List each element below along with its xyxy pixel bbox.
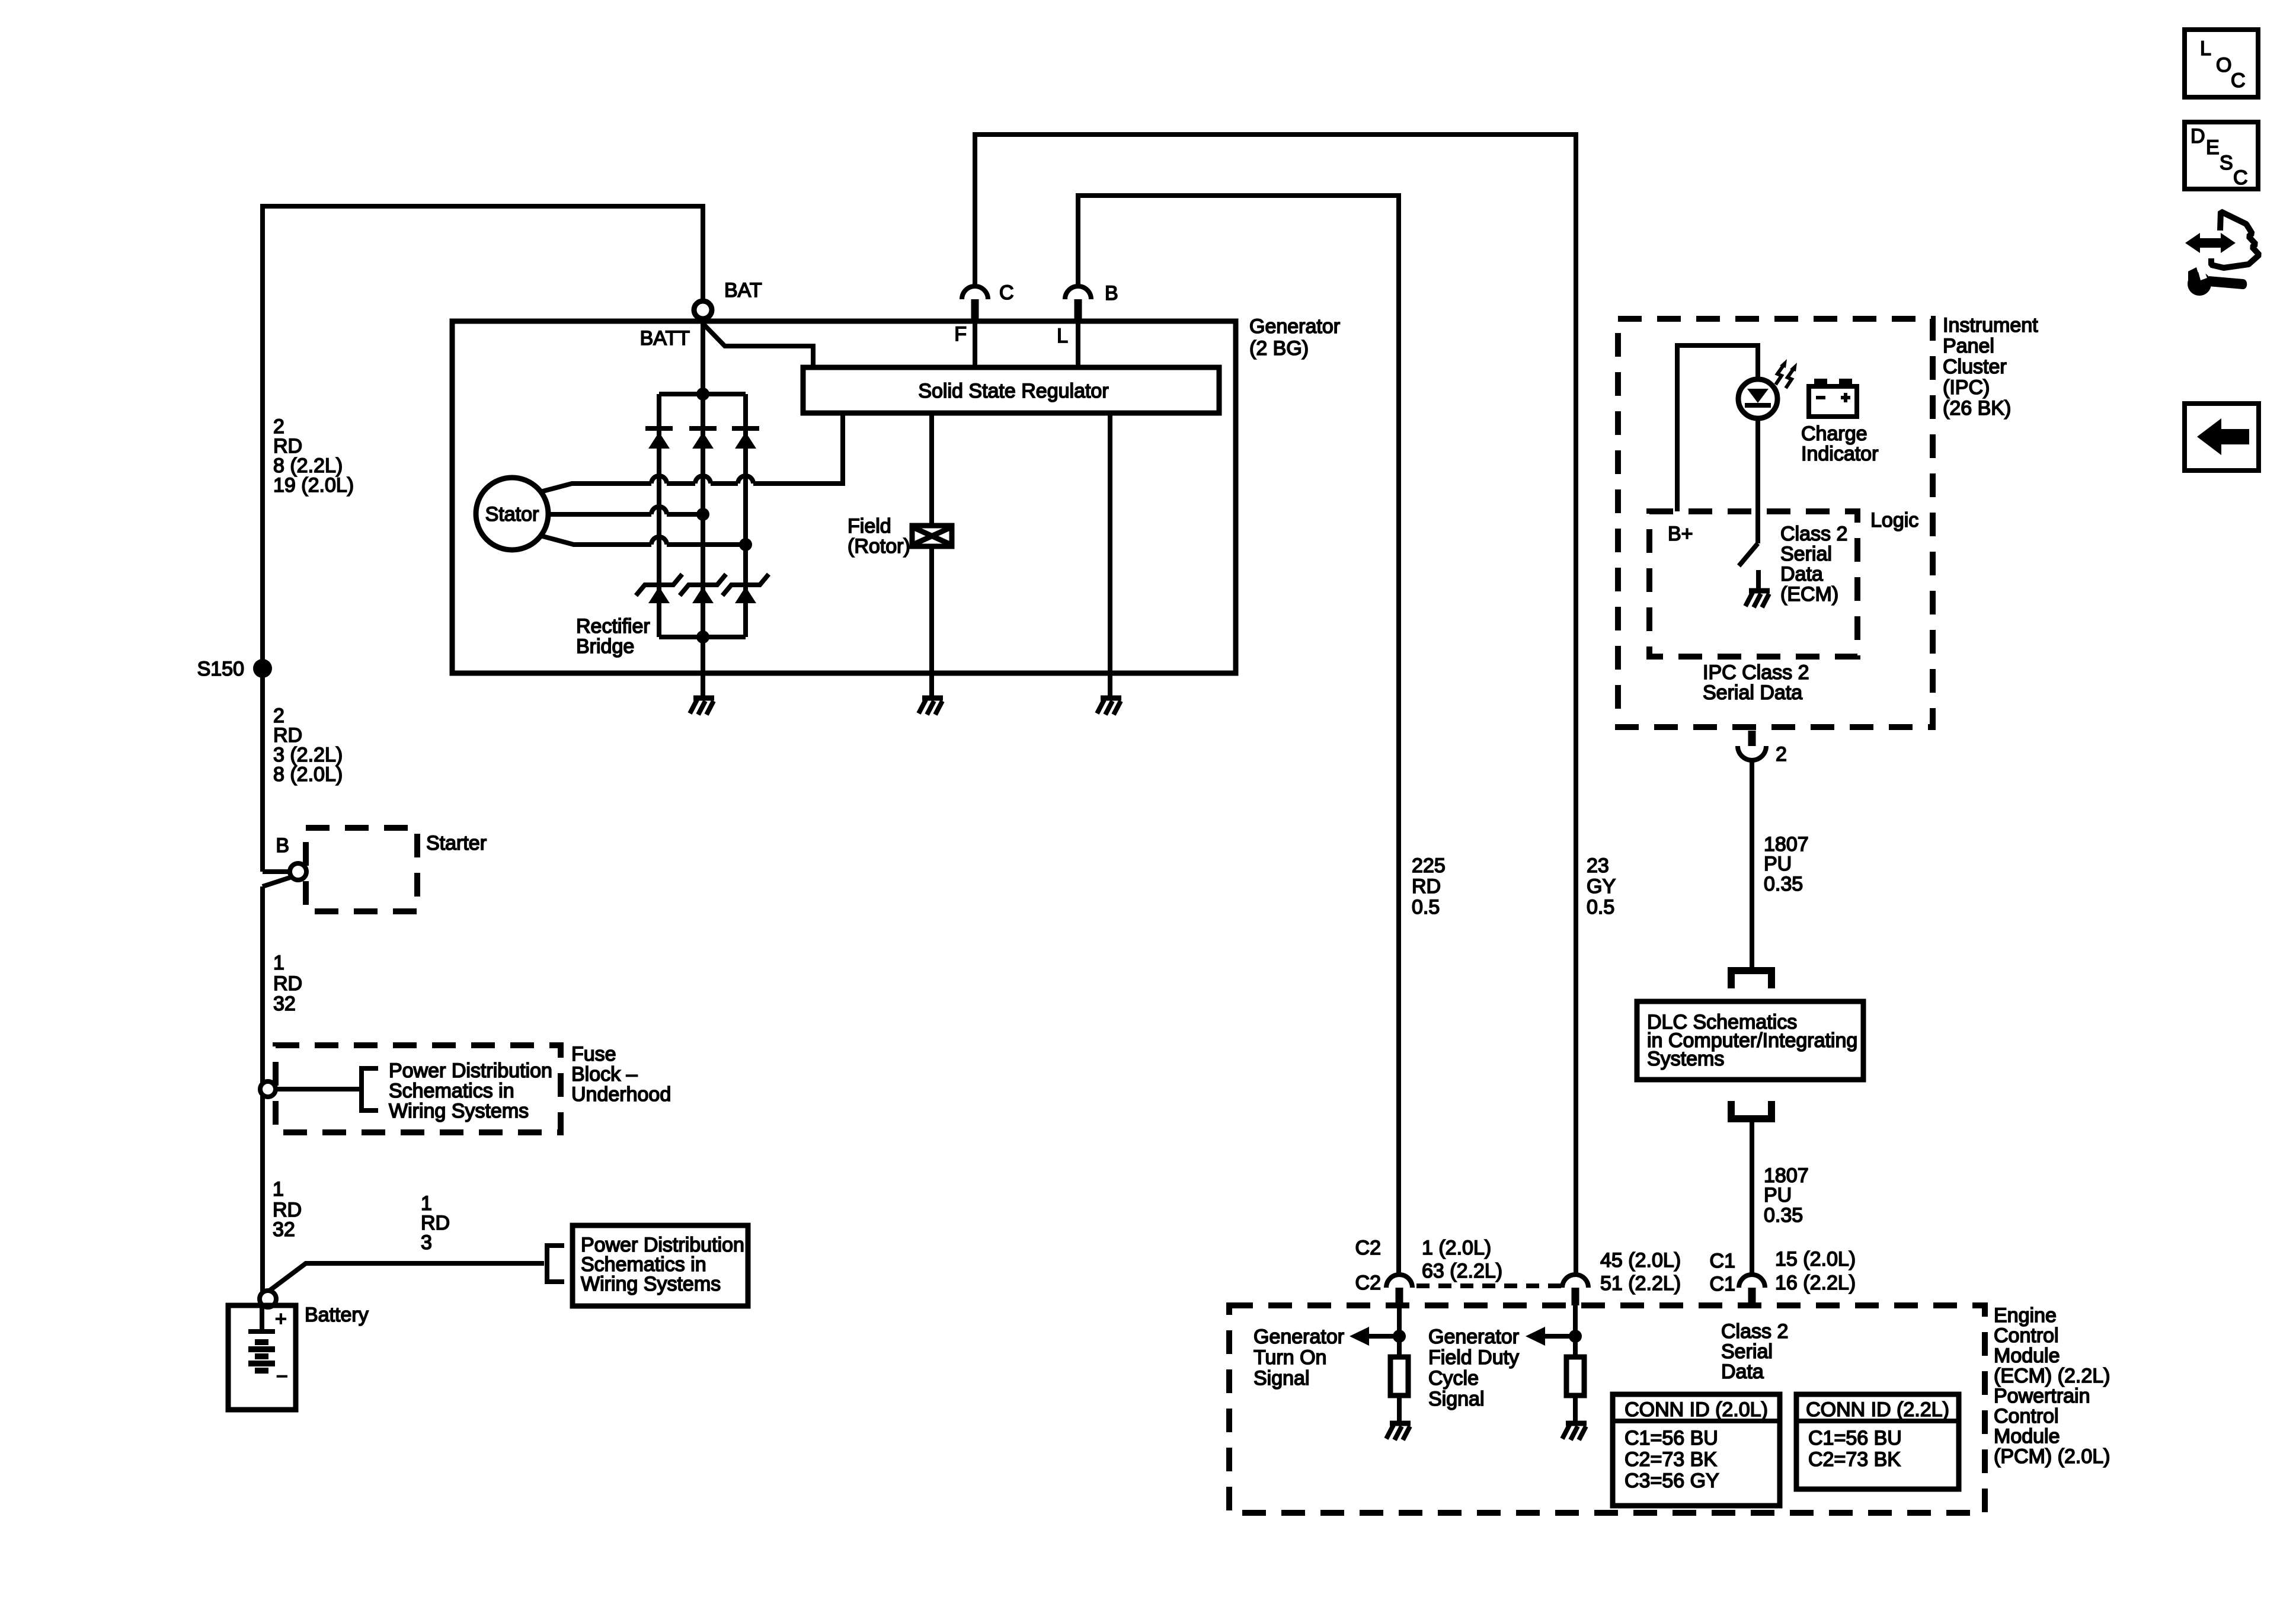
wire regulator right leg [1108, 413, 1112, 673]
svg-text:Class 2: Class 2 [1780, 523, 1847, 545]
svg-text:Panel: Panel [1943, 335, 1994, 357]
svg-text:0.35: 0.35 [1764, 1204, 1803, 1227]
svg-text:3: 3 [421, 1231, 432, 1254]
svg-text:C2: C2 [1355, 1272, 1381, 1294]
svg-text:B: B [276, 834, 289, 857]
svg-text:Signal: Signal [1253, 1367, 1310, 1390]
svg-text:8 (2.0L): 8 (2.0L) [273, 763, 343, 786]
svg-text:0.5: 0.5 [1587, 896, 1614, 918]
svg-text:2: 2 [1776, 743, 1787, 766]
node junction dot bridge top [696, 388, 709, 401]
wire DLC to ECM (1807 PU) [1750, 1119, 1754, 1274]
svg-text:Field: Field [848, 515, 891, 537]
diode lower right (avalanche) [722, 574, 769, 603]
svg-text:L: L [2200, 37, 2211, 60]
svg-text:Logic: Logic [1870, 509, 1918, 532]
svg-text:Control: Control [1994, 1405, 2059, 1427]
ground turn on signal [1386, 1423, 1411, 1440]
rectifier bridge bottom bus [659, 635, 746, 639]
engine control module dashed box [1229, 1305, 1985, 1513]
battery symbol [228, 1305, 296, 1410]
wire fuse block feed [276, 1087, 362, 1092]
svg-text:Instrument: Instrument [1943, 314, 2038, 337]
wire starter B tap [263, 877, 292, 886]
svg-text:BAT: BAT [724, 279, 762, 302]
bracket DLC bottom [1731, 1101, 1771, 1119]
wire generator B terminal to ECM (225 RD) top run [1078, 196, 1399, 1274]
node BAT ring terminal [694, 301, 712, 319]
stator circle [476, 478, 548, 550]
svg-text:D: D [2191, 125, 2205, 148]
svg-text:CONN ID (2.0L): CONN ID (2.0L) [1625, 1398, 1768, 1421]
svg-text:Bridge: Bridge [576, 635, 634, 658]
ground field duty cycle [1562, 1423, 1587, 1440]
node starter B terminal circle [290, 863, 306, 880]
bracket power distribution reference (fuse block) [362, 1068, 378, 1110]
wire F pin to regulator [973, 321, 977, 367]
ground field winding [929, 673, 934, 697]
rectifier bridge left leg [657, 394, 661, 637]
wire generator field duty cycle inside ECM [1573, 1305, 1578, 1357]
switch blade (logic) [1739, 543, 1758, 566]
diode upper right [732, 428, 759, 449]
svg-text:Module: Module [1994, 1425, 2060, 1448]
svg-text:C1=56 BU: C1=56 BU [1808, 1427, 1902, 1449]
svg-text:23: 23 [1587, 854, 1609, 877]
svg-text:Power Distribution: Power Distribution [389, 1060, 552, 1082]
power distribution schematics box [573, 1225, 748, 1306]
stator winding lead 3 [541, 536, 651, 545]
svg-text:(ECM) (2.2L): (ECM) (2.2L) [1994, 1365, 2110, 1387]
svg-text:B: B [1105, 282, 1118, 305]
node battery positive terminal circle [260, 1291, 276, 1307]
arrow field duty cycle [1544, 1334, 1575, 1339]
svg-text:Field Duty: Field Duty [1428, 1346, 1519, 1369]
CONN ID (2.0L) table [1613, 1394, 1780, 1506]
svg-text:Wiring Systems: Wiring Systems [581, 1273, 721, 1295]
generator box [452, 321, 1236, 673]
svg-text:Fuse: Fuse [571, 1043, 616, 1065]
svg-text:S: S [2220, 152, 2233, 174]
svg-text:Control: Control [1994, 1324, 2059, 1347]
svg-text:15 (2.0L): 15 (2.0L) [1775, 1248, 1856, 1270]
svg-text:Schematics in: Schematics in [389, 1080, 514, 1102]
svg-text:+: + [275, 1308, 287, 1330]
svg-text:−: − [276, 1365, 288, 1388]
svg-text:F: F [954, 323, 967, 345]
svg-text:32: 32 [273, 993, 296, 1015]
connector at ECM (field duty cycle) [1562, 1275, 1588, 1288]
node fuse block terminal circle [260, 1081, 276, 1097]
svg-text:Solid State Regulator: Solid State Regulator [918, 380, 1108, 402]
charge indicator LED [1738, 379, 1777, 418]
svg-text:O: O [2216, 54, 2231, 76]
svg-text:S150: S150 [197, 658, 244, 680]
resistor (field duty cycle) [1566, 1357, 1584, 1395]
node junction dot bridge bottom [696, 630, 709, 644]
svg-text:Battery: Battery [305, 1304, 369, 1326]
fuse block underhood dashed box [276, 1045, 561, 1132]
svg-text:(PCM) (2.0L): (PCM) (2.0L) [1994, 1445, 2110, 1468]
svg-text:C1: C1 [1710, 1250, 1735, 1272]
svg-text:Rectifier: Rectifier [576, 615, 650, 638]
svg-text:E: E [2206, 136, 2220, 159]
svg-text:IPC Class 2: IPC Class 2 [1703, 661, 1809, 684]
svg-text:C3=56 GY: C3=56 GY [1625, 1470, 1719, 1492]
CONN ID (2.2L) table [1796, 1394, 1959, 1489]
svg-text:GY: GY [1587, 875, 1616, 898]
icon back arrow box [2185, 404, 2259, 470]
svg-text:L: L [1057, 325, 1068, 347]
svg-text:32: 32 [273, 1218, 295, 1241]
svg-text:19 (2.0L): 19 (2.0L) [273, 474, 354, 497]
svg-text:C: C [999, 281, 1014, 304]
svg-text:Cluster: Cluster [1943, 356, 2007, 378]
battery icon (charge indicator) [1809, 386, 1857, 417]
svg-text:(2 BG): (2 BG) [1249, 337, 1309, 360]
connector C1 at ECM (class 2 serial data) [1739, 1275, 1765, 1288]
svg-text:Serial: Serial [1721, 1340, 1773, 1363]
svg-text:(IPC): (IPC) [1943, 376, 1990, 399]
wire generator turn on signal inside ECM [1397, 1305, 1402, 1357]
svg-text:(Rotor): (Rotor) [848, 535, 910, 558]
svg-text:Serial Data: Serial Data [1703, 681, 1802, 704]
fine dashed connector line C2 [1416, 1283, 1561, 1288]
svg-text:PU: PU [1764, 1184, 1792, 1206]
svg-text:Turn On: Turn On [1253, 1346, 1326, 1369]
svg-text:Generator: Generator [1249, 315, 1340, 338]
rectifier bridge right leg [743, 394, 748, 637]
svg-text:63 (2.2L): 63 (2.2L) [1422, 1260, 1502, 1282]
svg-text:0.35: 0.35 [1764, 873, 1803, 895]
DLC schematics box [1637, 1001, 1863, 1080]
svg-text:Indicator: Indicator [1801, 443, 1878, 465]
svg-text:C2=73 BK: C2=73 BK [1625, 1448, 1717, 1471]
solid state regulator box [803, 367, 1219, 413]
svg-text:B+: B+ [1668, 523, 1693, 545]
logic dashed box [1649, 511, 1857, 657]
wire battery positive to power distribution [268, 1263, 544, 1292]
svg-text:Charge: Charge [1801, 422, 1868, 445]
svg-text:C1: C1 [1710, 1273, 1735, 1295]
svg-text:Cycle: Cycle [1428, 1367, 1479, 1390]
wire BAT into rectifier bridge [701, 321, 705, 673]
wire LED cathode to switch [1755, 418, 1760, 543]
svg-text:Underhood: Underhood [571, 1083, 671, 1106]
ground regulator [1108, 673, 1112, 697]
svg-text:Serial: Serial [1780, 543, 1832, 565]
starter dashed box [306, 828, 417, 911]
wire BATT tap to regulator [703, 324, 813, 367]
svg-text:RD: RD [1412, 875, 1441, 898]
svg-text:(ECM): (ECM) [1780, 583, 1838, 606]
stator winding lead 2 [548, 512, 651, 517]
diode upper left [645, 428, 673, 449]
resistor (turn on signal) [1390, 1357, 1408, 1395]
node S150 splice [253, 659, 272, 678]
icon data link connector (arrows + wrench) [2185, 212, 2259, 296]
svg-text:Generator: Generator [1253, 1326, 1344, 1348]
field rotor winding [929, 413, 934, 526]
svg-text:(26 BK): (26 BK) [1943, 397, 2011, 420]
svg-text:0.5: 0.5 [1412, 896, 1440, 918]
svg-text:Engine: Engine [1994, 1304, 2057, 1327]
rectifier bridge top bus [659, 392, 746, 396]
svg-text:45 (2.0L): 45 (2.0L) [1600, 1249, 1681, 1272]
wire IPC B+ loop [1677, 345, 1758, 511]
svg-text:51 (2.2L): 51 (2.2L) [1600, 1272, 1681, 1295]
bracket power distribution reference (battery feed) [547, 1246, 564, 1282]
svg-text:Systems: Systems [1647, 1048, 1724, 1070]
svg-text:Starter: Starter [426, 832, 487, 854]
svg-text:Powertrain: Powertrain [1994, 1385, 2090, 1407]
connector 2 at IPC bottom [1748, 731, 1756, 746]
svg-text:C: C [2233, 167, 2248, 189]
wire generator C terminal to ECM (23 GY) top run [975, 135, 1576, 1274]
svg-text:C1=56 BU: C1=56 BU [1625, 1427, 1718, 1449]
svg-text:C: C [2231, 69, 2246, 92]
svg-text:Class 2: Class 2 [1721, 1320, 1788, 1343]
svg-text:CONN ID (2.2L): CONN ID (2.2L) [1806, 1398, 1949, 1421]
svg-text:Data: Data [1721, 1361, 1764, 1383]
svg-text:1: 1 [273, 952, 284, 974]
LED light arrows [1776, 364, 1785, 385]
svg-text:1 (2.0L): 1 (2.0L) [1422, 1237, 1491, 1259]
wire IPC to DLC (1807 PU) [1750, 760, 1754, 969]
svg-text:1: 1 [273, 1178, 284, 1201]
wire L pin to regulator [1076, 321, 1080, 367]
connector C2 at ECM (generator turn on) [1386, 1275, 1412, 1288]
connector C half-moon [962, 286, 988, 299]
diode lower middle (avalanche) [680, 574, 726, 603]
arrow generator turn on [1368, 1334, 1399, 1339]
svg-text:Data: Data [1780, 563, 1823, 585]
svg-text:RD: RD [273, 972, 302, 995]
svg-text:Module: Module [1994, 1345, 2060, 1367]
svg-text:C2=73 BK: C2=73 BK [1808, 1448, 1901, 1471]
svg-text:PU: PU [1764, 853, 1792, 875]
ground generator bridge [701, 673, 705, 697]
instrument panel cluster dashed box [1618, 319, 1933, 727]
svg-text:Generator: Generator [1428, 1326, 1519, 1348]
svg-text:225: 225 [1412, 854, 1446, 877]
icon LOC box [2185, 30, 2258, 97]
stator winding lead 1 [541, 484, 651, 492]
connector B half-moon [1065, 286, 1091, 299]
svg-text:Stator: Stator [485, 503, 539, 526]
diode lower left (avalanche) [636, 574, 682, 603]
bracket DLC top [1731, 971, 1771, 988]
ground IPC logic [1756, 570, 1761, 589]
svg-text:16 (2.2L): 16 (2.2L) [1775, 1272, 1856, 1294]
icon DESC box [2185, 122, 2258, 189]
svg-text:Block –: Block – [571, 1063, 638, 1086]
svg-text:BATT: BATT [640, 327, 690, 350]
wire battery feed top horizontal (2 RD) [263, 206, 703, 872]
diode upper middle [689, 428, 717, 449]
svg-text:C2: C2 [1355, 1237, 1381, 1259]
svg-text:Signal: Signal [1428, 1388, 1485, 1410]
svg-text:Wiring Systems: Wiring Systems [389, 1100, 529, 1122]
